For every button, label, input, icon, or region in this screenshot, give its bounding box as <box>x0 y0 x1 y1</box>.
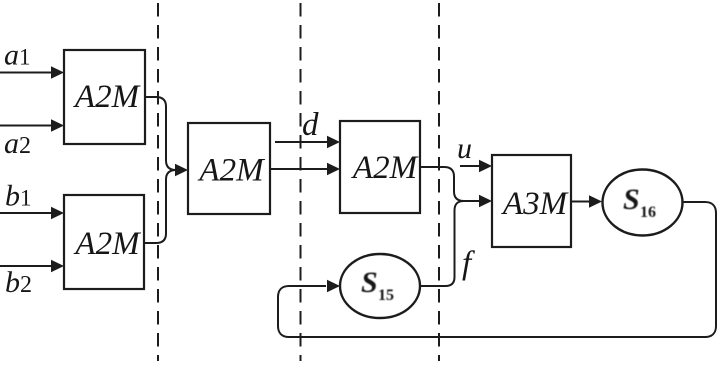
svg-text:b1: b1 <box>5 180 32 213</box>
svg-text:d: d <box>302 107 319 143</box>
wire U2 output merge lower <box>144 170 177 243</box>
svg-text:b2: b2 <box>5 266 32 299</box>
svg-text:a1: a1 <box>4 39 31 72</box>
svg-text:u: u <box>457 132 472 165</box>
arrowhead U3 out into U4 <box>327 163 340 176</box>
svg-text:A3M: A3M <box>501 186 569 222</box>
dashed stage separator 1 <box>157 3 159 361</box>
wire input u <box>460 165 479 167</box>
svg-text:a2: a2 <box>4 127 31 160</box>
svg-text:S: S <box>623 183 640 216</box>
wire f from S15 to A3M <box>419 201 464 286</box>
svg-text:A2M: A2M <box>73 226 141 262</box>
svg-text:A2M: A2M <box>351 150 419 186</box>
block U2 A2M <box>64 195 144 289</box>
wire input b1 <box>0 212 52 214</box>
wire input d <box>275 141 327 143</box>
svg-text:15: 15 <box>378 287 394 304</box>
wire U3 output <box>270 168 327 170</box>
wire input a1 <box>0 72 52 74</box>
wire feedback S16 to S15 <box>278 202 716 337</box>
arrowhead d into U4 <box>327 136 340 149</box>
dashed stage separator 2 <box>300 3 302 361</box>
block U3 A2M <box>188 123 270 214</box>
arrowhead a1 into U1 <box>51 66 64 79</box>
arrowhead merged into U5 <box>479 195 492 208</box>
wire U4 output to A3M <box>420 167 479 201</box>
node S15 ellipse <box>340 254 420 318</box>
arrowhead b2 into U2 <box>51 260 64 273</box>
arrowhead U5 out into S16 <box>589 195 602 208</box>
arrowhead b1 into U2 <box>51 207 64 220</box>
block U5 A3M <box>492 155 571 247</box>
wire input a2 <box>0 125 52 127</box>
wire input b2 <box>0 265 52 267</box>
svg-text:A2M: A2M <box>73 79 141 115</box>
wire U1 output merge upper <box>145 97 177 170</box>
dashed stage separator 3 <box>438 3 440 361</box>
svg-text:S: S <box>361 266 378 299</box>
arrowhead merge into U3 <box>175 164 188 177</box>
block U4 A2M <box>340 121 420 213</box>
arrowhead feedback into S15 <box>327 280 340 293</box>
svg-text:16: 16 <box>640 204 656 221</box>
svg-text:A2M: A2M <box>197 153 265 189</box>
svg-text:f: f <box>462 246 475 282</box>
node S16 ellipse <box>603 170 683 236</box>
arrowhead a2 into U1 <box>51 119 64 132</box>
arrowhead u into U5 <box>479 160 492 173</box>
wire U5 output to S16 <box>571 201 589 203</box>
block U1 A2M <box>64 50 145 144</box>
